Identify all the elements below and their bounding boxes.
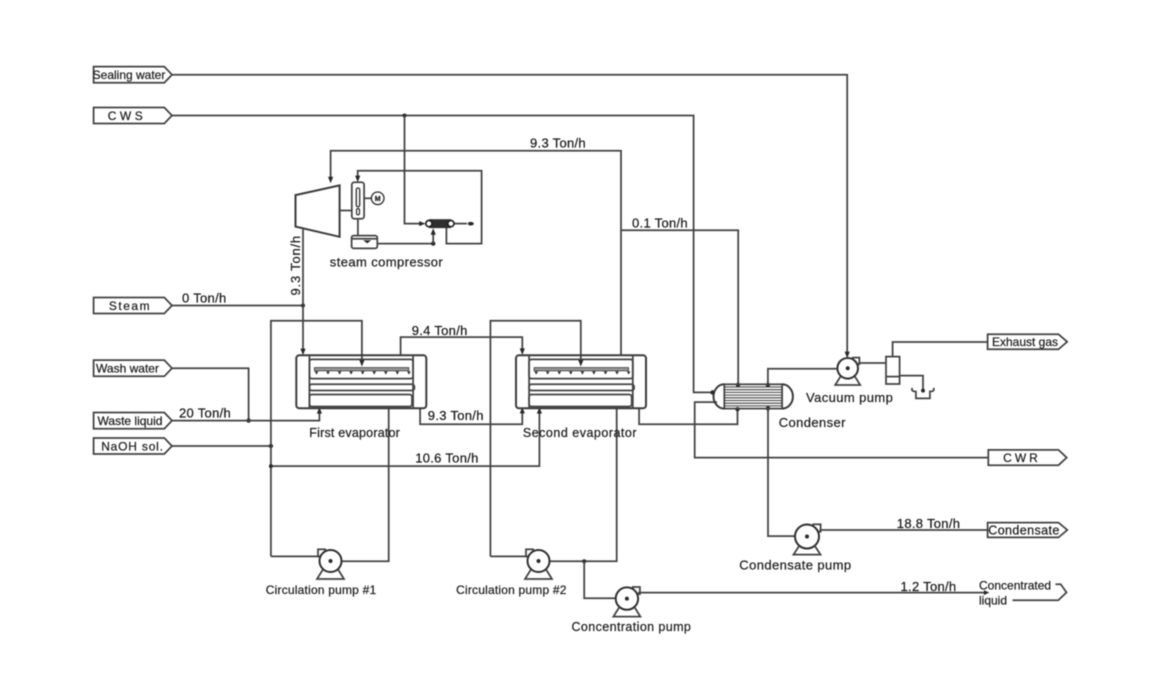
pump 1 casing bbox=[320, 550, 342, 572]
svg-text:Concentrated: Concentrated bbox=[979, 579, 1051, 593]
evaporator 2 heating bar bbox=[534, 368, 628, 371]
inlet tag CWS bbox=[94, 108, 172, 124]
gas-liquid separator bbox=[886, 357, 900, 384]
evaporator 1 right wall bbox=[412, 355, 414, 408]
wire loop1 pump discharge riser bbox=[342, 408, 389, 561]
wire compressor discharge down to first evaporator bbox=[302, 229, 304, 350]
condensate pump hub bbox=[805, 535, 809, 539]
svg-text:Circulation pump #2: Circulation pump #2 bbox=[456, 583, 567, 597]
inlet tag Steam bbox=[94, 298, 172, 314]
steam compressor body bbox=[296, 185, 340, 236]
node condenser top vacuum nozzle bbox=[766, 383, 770, 387]
evaporator 1 heating bar bbox=[314, 368, 408, 371]
svg-text:Condensate: Condensate bbox=[988, 523, 1059, 537]
wire sealing water line to vacuum pump bbox=[172, 75, 847, 353]
wire waste liquid 20 Ton/h feed bbox=[172, 413, 319, 421]
second evaporator bbox=[516, 355, 646, 408]
evaporator 1 middle plate bbox=[309, 384, 414, 390]
wire circulation loop 1 riser and spray feed bbox=[271, 321, 362, 557]
pump 2 base bbox=[525, 569, 552, 579]
arrow feed into evap1 bottom bbox=[317, 407, 322, 413]
pump 2 casing bbox=[528, 550, 550, 572]
svg-text:9.3 Ton/h: 9.3 Ton/h bbox=[530, 136, 586, 151]
node 10.6 branch bbox=[269, 464, 273, 468]
condensate pot body bbox=[352, 236, 378, 249]
svg-text:Condenser: Condenser bbox=[779, 415, 846, 430]
svg-text:9.4 Ton/h: 9.4 Ton/h bbox=[412, 323, 468, 338]
svg-text:CWS: CWS bbox=[108, 109, 147, 123]
svg-text:Second evaporator: Second evaporator bbox=[523, 426, 637, 440]
node vent end blob bbox=[468, 222, 474, 226]
wire steam 0 Ton/h bbox=[172, 305, 303, 307]
outlet tag Condensate bbox=[988, 523, 1068, 538]
arrow into control valve top bbox=[355, 176, 360, 183]
wire NaOH sol. bbox=[172, 445, 271, 447]
wire CWS header bbox=[172, 116, 712, 393]
wire separator drain to funnel bbox=[900, 376, 923, 390]
svg-text:9.3 Ton/h: 9.3 Ton/h bbox=[428, 408, 484, 423]
evaporator 2 vapor chest bbox=[529, 359, 633, 378]
pump 1 tab bbox=[318, 549, 325, 556]
svg-text:20 Ton/h: 20 Ton/h bbox=[179, 406, 231, 421]
wire cooling water return to CWR bbox=[695, 402, 989, 458]
wire 10.6 Ton/h transfer bbox=[271, 413, 540, 466]
circulation pump 2 bbox=[525, 549, 552, 579]
control valve slot upper bbox=[356, 188, 359, 207]
condensate pump tab bbox=[813, 524, 820, 531]
inlet tag Wash water bbox=[94, 360, 172, 376]
svg-text:liquid: liquid bbox=[979, 593, 1007, 607]
wire vacuum pump outlet to separator bbox=[858, 362, 886, 364]
node wash water joins waste liquid bbox=[246, 418, 250, 422]
svg-text:18.8 Ton/h: 18.8 Ton/h bbox=[897, 516, 960, 531]
svg-text:Concentration pump: Concentration pump bbox=[572, 620, 692, 634]
arrow into vacuum pump top bbox=[845, 352, 850, 359]
node condenser vapor inlet bbox=[736, 383, 740, 387]
arrow into aftercooler left cap bbox=[419, 221, 425, 226]
concentration pump hub bbox=[625, 597, 629, 601]
wire wash water bbox=[172, 368, 249, 420]
node CWS inlet condenser bbox=[710, 390, 714, 394]
node CWS branch junction bbox=[403, 114, 407, 118]
condenser left dome bbox=[714, 384, 725, 408]
node condenser bottom drain inlet bbox=[735, 407, 739, 411]
arrow into evap2 chest top bbox=[520, 348, 525, 355]
node aftercooler feed junction bbox=[431, 241, 435, 245]
motor M circle bbox=[371, 192, 384, 205]
arrow into aftercooler bottom bbox=[431, 228, 436, 235]
svg-text:0 Ton/h: 0 Ton/h bbox=[182, 290, 227, 305]
svg-text:Steam: Steam bbox=[109, 299, 151, 313]
wire CWS branch to aftercooler bbox=[405, 116, 420, 224]
svg-text:CWR: CWR bbox=[1003, 451, 1041, 465]
aftercooler right cap bbox=[448, 221, 454, 227]
evaporator 1 drip ticks bbox=[315, 371, 411, 374]
vacuum pump casing bbox=[837, 358, 858, 379]
wire condensate from condenser bottom to pump bbox=[768, 409, 796, 536]
vacuum pump tab bbox=[853, 358, 860, 365]
node funnel drip bbox=[921, 389, 925, 393]
condenser right dome bbox=[782, 384, 793, 408]
svg-text:First evaporator: First evaporator bbox=[309, 426, 400, 440]
node condenser condensate nozzle bbox=[766, 406, 770, 410]
evaporator 2 right wall bbox=[632, 355, 634, 408]
pump 1 base bbox=[317, 569, 344, 579]
condensate pump base bbox=[794, 545, 821, 554]
svg-text:Circulation pump #1: Circulation pump #1 bbox=[266, 583, 377, 597]
control valve slot lower bbox=[357, 209, 360, 215]
svg-text:Exhaust gas: Exhaust gas bbox=[992, 335, 1058, 349]
concentration pump base bbox=[613, 607, 640, 617]
node steam junction bbox=[301, 304, 305, 308]
concentration pump tab bbox=[633, 587, 640, 594]
arrow 10.6 into evap2 bottom bbox=[537, 407, 542, 413]
inlet tag Waste liquid bbox=[94, 413, 172, 429]
wire vacuum suction from condenser top bbox=[768, 369, 837, 385]
condensate pot triangle mark bbox=[363, 240, 371, 243]
svg-text:9.3 Ton/h: 9.3 Ton/h bbox=[288, 235, 303, 295]
evaporator 2 shell bbox=[516, 355, 646, 408]
evaporator 2 middle plate bbox=[529, 384, 634, 390]
arrow into evap2 jacket bottom bbox=[520, 407, 525, 413]
concentration pump bbox=[613, 587, 640, 617]
wire 0.1 Ton/h vapor to condenser bbox=[621, 230, 738, 383]
evaporator 1 shell bbox=[296, 355, 426, 408]
svg-text:Wash water: Wash water bbox=[96, 362, 159, 376]
vacuum pump bbox=[835, 358, 860, 385]
wire pot outlet to aftercooler feed bbox=[377, 243, 433, 245]
condensate pump bbox=[794, 524, 821, 554]
evaporator 2 bottom sump bbox=[529, 395, 632, 407]
wire aftercooler outlet vent bbox=[454, 223, 467, 225]
pump 2 tab bbox=[526, 549, 533, 556]
wire aftercooler return to control valve bbox=[358, 171, 482, 244]
wire up into aftercooler bbox=[432, 234, 434, 244]
wire circulation loop 2 riser and spray feed bbox=[490, 321, 580, 557]
evaporator 1 bottom sump bbox=[309, 395, 412, 407]
condenser shell bbox=[724, 384, 782, 408]
wire concentrated liquid 1.2 Ton/h bbox=[638, 592, 985, 594]
vacuum pump hub bbox=[846, 366, 850, 370]
evaporator 1 vapor chest bbox=[309, 359, 413, 378]
arrow spray into evap2 heating bar bbox=[578, 360, 583, 367]
circulation pump 1 bbox=[317, 549, 344, 579]
evaporator 2 drip ticks bbox=[534, 371, 630, 374]
arrow into compressor suction bbox=[328, 177, 333, 184]
outlet tag CWR bbox=[988, 450, 1066, 465]
pump 1 hub bbox=[329, 559, 333, 563]
condensate pump casing bbox=[795, 525, 819, 549]
wire branch down to concentration pump bbox=[584, 561, 615, 598]
concentration pump casing bbox=[616, 587, 638, 609]
node concentration branch bbox=[582, 559, 586, 563]
drain funnel bbox=[912, 388, 934, 399]
vacuum pump base bbox=[835, 376, 860, 385]
condensate pot level line bbox=[352, 238, 378, 240]
control valve body bbox=[352, 182, 364, 219]
inlet tag NaOH sol. bbox=[94, 438, 172, 454]
evaporator 1 left wall bbox=[308, 355, 310, 408]
wire evap2 jacket drain to condenser bottom bbox=[639, 408, 737, 424]
svg-text:Sealing water: Sealing water bbox=[93, 68, 166, 82]
svg-text:10.6 Ton/h: 10.6 Ton/h bbox=[415, 450, 478, 465]
wire loop2 pump suction bbox=[490, 555, 527, 557]
svg-text:0.1 Ton/h: 0.1 Ton/h bbox=[632, 215, 688, 230]
arrow concentrated liquid end bbox=[984, 590, 989, 595]
svg-text:M: M bbox=[375, 196, 381, 203]
separator level line bbox=[886, 376, 900, 378]
wire compressor to control valve bbox=[340, 210, 352, 212]
svg-text:Condensate pump: Condensate pump bbox=[739, 557, 851, 572]
node NaOH junction bbox=[269, 444, 273, 448]
wire loop1 pump suction bbox=[271, 555, 320, 557]
wire valve to condensate pot bbox=[357, 219, 359, 236]
svg-text:NaOH sol.: NaOH sol. bbox=[101, 439, 164, 453]
wire condensate 18.8 Ton/h to outlet bbox=[820, 529, 988, 531]
inlet tag Sealing water bbox=[94, 67, 172, 83]
wire valve to motor bbox=[364, 197, 371, 199]
svg-text:Waste liquid: Waste liquid bbox=[98, 414, 163, 428]
svg-text:steam compressor: steam compressor bbox=[330, 254, 444, 269]
evaporator 2 left wall bbox=[528, 355, 530, 408]
condenser tubes bbox=[724, 387, 782, 406]
aftercooler left cap bbox=[426, 221, 432, 227]
svg-text:1.2 Ton/h: 1.2 Ton/h bbox=[901, 579, 957, 594]
wire loop2 pump discharge riser bbox=[550, 408, 617, 561]
wire 9.3 Ton/h condensate evap1 to evap2 jacket bbox=[420, 408, 522, 424]
outlet tag Exhaust gas bbox=[988, 334, 1068, 349]
arrow into evap1 chest top bbox=[300, 349, 305, 356]
wire separator top to exhaust gas bbox=[893, 342, 988, 357]
svg-text:Vacuum pump: Vacuum pump bbox=[806, 390, 893, 405]
first evaporator bbox=[296, 355, 426, 408]
wire vapor from second evaporator to compressor suction bbox=[331, 151, 621, 355]
arrow spray into evap1 heating bar bbox=[359, 360, 364, 367]
wire 9.4 Ton/h vapor evap1 to evap2 chest bbox=[401, 337, 523, 355]
pump 2 hub bbox=[537, 559, 541, 563]
aftercooler body bbox=[430, 220, 451, 228]
